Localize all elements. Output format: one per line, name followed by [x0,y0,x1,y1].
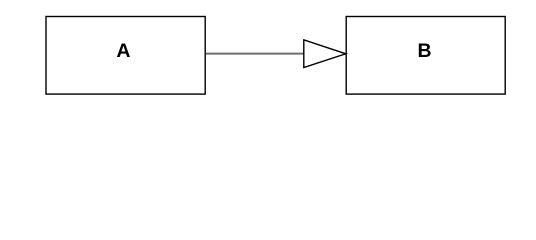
box A [46,17,205,95]
arrowhead (hollow triangle) [304,40,346,68]
svg-text:A: A [116,40,130,62]
box B [346,17,505,95]
wire A to arrowhead [206,53,304,55]
svg-text:B: B [417,40,431,62]
